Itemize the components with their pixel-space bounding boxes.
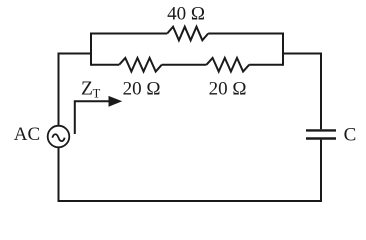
resistor 20 Ω (right): [207, 58, 250, 72]
capacitor C top plate: [306, 129, 336, 131]
wire: right vertical upper: [320, 53, 322, 130]
wire: bottom branch right lead: [249, 64, 283, 66]
wire: output to right vertical: [283, 53, 321, 55]
svg-text:40 Ω: 40 Ω: [167, 3, 205, 24]
wire: parallel box right vertical: [282, 33, 284, 66]
wire: left vertical lower: [58, 147, 60, 202]
svg-text:Z: Z: [81, 78, 93, 99]
wire: left feed to parallel box: [59, 53, 92, 55]
wire: top branch right lead: [208, 33, 283, 35]
wire: left vertical upper: [58, 53, 60, 126]
wire: bottom branch left lead: [91, 64, 119, 66]
capacitor C bottom plate: [306, 137, 336, 139]
svg-text:AC: AC: [14, 124, 40, 145]
wire: top branch left lead: [91, 33, 167, 35]
wire: bottom: [58, 200, 323, 202]
svg-text:T: T: [93, 86, 101, 100]
AC source sine wave: [52, 134, 64, 141]
svg-text:C: C: [344, 124, 357, 145]
svg-text:20 Ω: 20 Ω: [209, 79, 247, 100]
wire: bottom branch middle lead: [162, 64, 207, 66]
wire: parallel box left vertical: [90, 33, 92, 66]
impedance arrow Z_T: [75, 101, 109, 134]
resistor 20 Ω (left): [119, 58, 162, 72]
svg-text:20 Ω: 20 Ω: [123, 79, 161, 100]
wire: right vertical lower: [320, 140, 322, 201]
AC source circle: [48, 126, 70, 148]
impedance arrowhead: [109, 96, 123, 107]
resistor 40 Ω: [167, 27, 208, 41]
